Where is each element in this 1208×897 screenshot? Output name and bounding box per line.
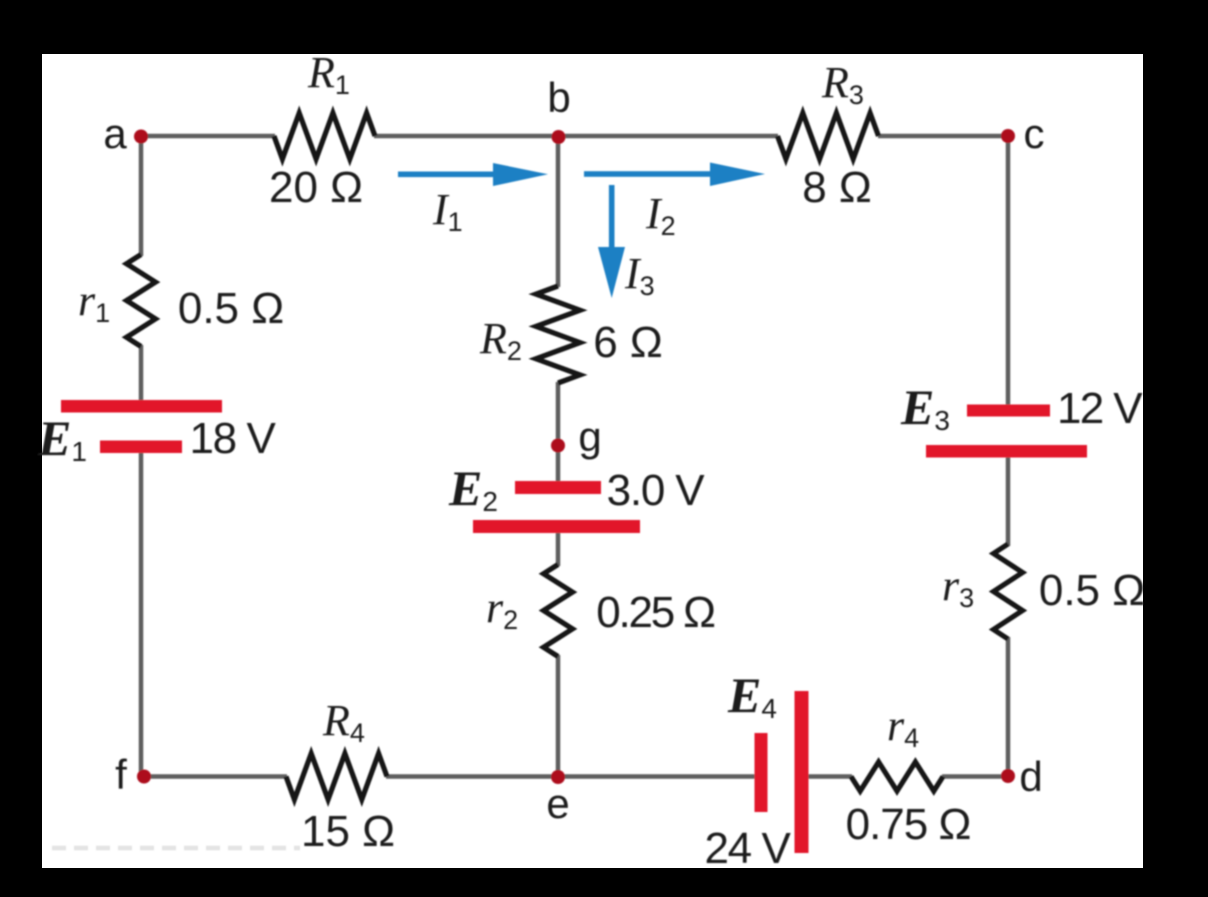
resistor R1 [274,113,375,159]
battery E1 long plate [61,400,222,413]
wire E1 to f [139,452,144,777]
battery E1 short plate [100,441,182,454]
wire R4 to e [386,774,558,779]
wire e to battery E4 [558,774,755,779]
svg-text:0.5 Ω: 0.5 Ω [1039,566,1145,615]
node e [551,770,565,784]
node g [551,439,565,453]
svg-text:d: d [1019,753,1042,800]
current arrow I2 [584,163,765,187]
current arrow I1 [398,163,548,186]
svg-text:a: a [103,110,127,157]
resistor R3 [778,113,879,159]
wire R3 to c [878,134,1008,139]
svg-text:0.75 Ω: 0.75 Ω [846,800,971,849]
svg-text:0.25 Ω: 0.25 Ω [596,588,714,637]
svg-text:e: e [546,780,569,827]
resistor r2 [544,565,573,657]
battery E2 long plate [473,520,640,533]
svg-text:20 Ω: 20 Ω [269,163,363,212]
wire E2 to r2 [556,532,561,566]
resistor R4 [286,754,387,800]
wire b to R3 [558,134,778,139]
resistor r1 [127,255,156,347]
node d [1001,769,1015,783]
wire r3 to d [1006,637,1011,776]
wire E4 to r4 [808,774,852,779]
battery E2 short plate [515,481,601,494]
wire b down to R2 [556,136,561,287]
battery E3 short plate [967,405,1050,417]
svg-text:15 Ω: 15 Ω [301,807,395,856]
battery E4 long plate [795,691,809,853]
battery E3 long plate [926,445,1087,458]
svg-text:b: b [547,74,570,121]
svg-text:0.5 Ω: 0.5 Ω [178,284,284,333]
svg-text:c: c [1024,110,1045,157]
svg-text:g: g [578,413,601,460]
svg-text:18 V: 18 V [190,414,277,463]
wire R2 to g [556,382,561,446]
svg-text:6 Ω: 6 Ω [593,318,663,367]
resistor r4 [851,762,943,791]
svg-text:3.0 V: 3.0 V [607,466,706,515]
wire E3 to r3 [1006,456,1011,546]
faint watermark dashes [52,846,300,851]
svg-text:24 V: 24 V [705,824,792,873]
wire c down to E3 [1006,136,1011,406]
current arrow I3 [598,185,625,298]
node b [552,130,566,144]
wire r2 to e [556,655,561,777]
resistor r3 [994,544,1023,639]
wire a to R1 [141,134,275,139]
node c [1001,129,1015,143]
wire a down to r1 [139,136,144,256]
svg-text:12 V: 12 V [1057,384,1143,433]
svg-text:f: f [115,751,127,798]
node a [134,130,148,144]
svg-text:8 Ω: 8 Ω [802,163,872,212]
resistor R2 [536,286,580,383]
wire r1 to battery E1 [139,345,144,401]
wire g to battery E2 [556,446,561,482]
wire r4 to d [942,774,1008,779]
node f [137,770,151,784]
battery E4 short plate [755,733,768,812]
wire R1 to b [374,134,558,139]
wire f to R4 [142,774,287,779]
